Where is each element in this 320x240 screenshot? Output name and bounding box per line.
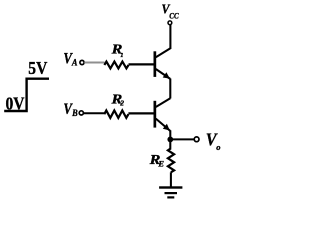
svg-text:E: E [157, 159, 164, 169]
svg-text:5V: 5V [28, 58, 47, 78]
svg-text:2: 2 [119, 99, 124, 108]
svg-text:B: B [71, 109, 77, 119]
svg-text:1: 1 [120, 52, 123, 59]
svg-text:CC: CC [169, 11, 179, 21]
svg-text:o: o [216, 142, 220, 152]
svg-text:0V: 0V [6, 94, 25, 114]
svg-text:A: A [71, 59, 77, 69]
